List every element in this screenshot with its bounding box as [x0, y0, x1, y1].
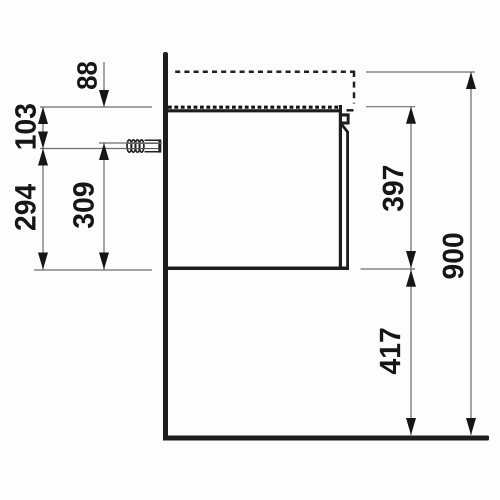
washbasin bottom dash beyond cabinet — [347, 109, 354, 112]
dimension line 103/294 — [42, 107, 44, 270]
label 900 — [443, 233, 464, 278]
basin top extension line right (900) — [366, 71, 475, 73]
wall anchor screw — [127, 139, 161, 152]
dimension line 88 — [103, 62, 105, 107]
arrow 294 up — [38, 149, 48, 166]
label 309 — [73, 183, 94, 229]
arrow 309 up — [99, 143, 109, 160]
washbasin dashed top — [171, 71, 355, 74]
cabinet bottom extension line left — [34, 269, 152, 271]
cabinet top edge — [168, 109, 343, 112]
arrow 103 down — [38, 132, 48, 149]
basin bottom extension line right (397) — [366, 106, 415, 108]
309 reference line through screw — [99, 142, 162, 144]
cabinet right side panel — [339, 105, 342, 270]
drawer front edge — [346, 131, 349, 269]
label 294 — [15, 184, 36, 230]
arrow 900 down — [466, 418, 476, 435]
arrow 103 up — [38, 107, 48, 124]
dimension line 309 — [103, 143, 105, 270]
washbasin dense dashed bottom — [168, 106, 338, 109]
dimension line 900 — [470, 72, 472, 435]
arrow 294 down — [38, 253, 48, 270]
dimension line 397/417 — [410, 107, 412, 435]
floor — [163, 436, 489, 441]
arrow 309 down — [99, 253, 109, 270]
basin bottom extension line left — [40, 106, 152, 108]
label 88 — [77, 62, 97, 89]
drawer handle rail profile — [342, 113, 350, 124]
arrow 397 up — [406, 107, 416, 124]
drawer front chamfer — [342, 125, 348, 132]
arrow 900 up — [466, 72, 476, 89]
screw centerline extension (103/294) — [40, 148, 127, 150]
arrow 88 down — [99, 90, 109, 107]
cabinet bottom edge — [168, 267, 350, 271]
wall — [163, 52, 168, 441]
arrow 417 up — [406, 270, 416, 287]
washbasin dashed right edge — [353, 71, 356, 104]
label 103 — [15, 104, 36, 148]
arrow 417 down — [406, 418, 416, 435]
cabinet bottom extension line right — [361, 268, 416, 270]
label 397 — [383, 166, 404, 211]
arrow 397 down — [406, 251, 416, 268]
label 417 — [380, 329, 400, 375]
